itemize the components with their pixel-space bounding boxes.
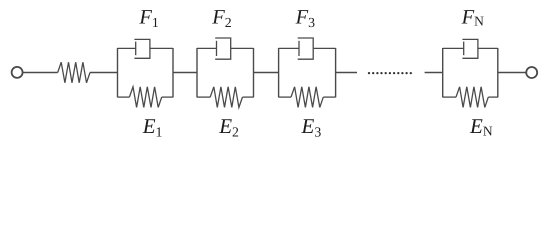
wire: block N to right terminal: [498, 72, 527, 74]
wire: top branch into dashpot F1: [118, 47, 136, 49]
series spring (input spring): [58, 62, 90, 83]
dashpot FN cylinder: [462, 39, 478, 58]
wire: spring EN to right bar: [488, 96, 498, 98]
wire: dashpot F1 to right bar: [150, 47, 173, 49]
Kelvin element 2: right junction bar: [253, 48, 255, 97]
wire: spring E1 to right bar: [162, 96, 173, 98]
Kelvin element 3: left junction bar: [278, 48, 280, 97]
dashpot F3 piston: [298, 41, 300, 56]
wire from series spring to block 1: [90, 72, 118, 74]
wire: bottom branch into spring E1: [118, 96, 130, 98]
dashpot F2 piston: [216, 41, 218, 56]
spring E2: [210, 87, 242, 108]
wire: block 1 to block 2: [173, 72, 197, 74]
wire: top branch into dashpot F3: [279, 47, 299, 49]
wire: bottom branch into spring EN: [443, 96, 456, 98]
wire: bottom branch into spring E2: [197, 96, 210, 98]
wire: dashpot F2 to right bar: [231, 47, 254, 49]
wire: ellipsis to block N: [425, 72, 443, 74]
Kelvin element N: right junction bar: [497, 48, 499, 97]
Kelvin element 1: left junction bar: [117, 48, 119, 97]
right terminal: [526, 67, 537, 78]
wire from left terminal to series spring: [23, 72, 58, 74]
wire: block 2 to block 3: [254, 72, 279, 74]
wire: dashpot FN to right bar: [478, 47, 498, 49]
wire: top branch into dashpot F2: [197, 47, 217, 49]
left terminal: [12, 67, 23, 78]
wire: bottom branch into spring E3: [279, 96, 291, 98]
ellipsis dots (continuation): [368, 72, 412, 74]
dashpot FN piston: [463, 42, 465, 56]
spring E3: [291, 87, 323, 108]
wire: dashpot F3 to right bar: [313, 47, 335, 49]
Kelvin element 1: right junction bar: [172, 48, 174, 97]
wire: spring E3 to right bar: [323, 96, 335, 98]
wire: top branch into dashpot FN: [443, 47, 464, 49]
spring EN: [456, 87, 488, 108]
Kelvin element N: left junction bar: [442, 48, 444, 97]
dashpot F3 cylinder: [298, 38, 314, 59]
Kelvin element 2: left junction bar: [196, 48, 198, 97]
dashpot F1 cylinder: [134, 39, 150, 58]
wire: block 3 toward ellipsis: [336, 72, 357, 74]
wire: spring E2 to right bar: [243, 96, 254, 98]
Kelvin element 3: right junction bar: [335, 48, 337, 97]
dashpot F2 cylinder: [215, 38, 231, 59]
dashpot F1 piston: [135, 42, 137, 56]
spring E1: [129, 87, 161, 108]
